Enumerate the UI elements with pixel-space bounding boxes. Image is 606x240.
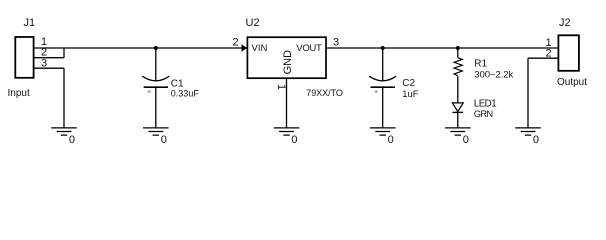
svg-text:Input: Input <box>8 88 30 99</box>
svg-text:0: 0 <box>463 134 469 146</box>
svg-text:0.33uF: 0.33uF <box>171 89 200 99</box>
svg-text:0: 0 <box>291 134 297 146</box>
svg-text:J2: J2 <box>559 17 571 29</box>
svg-text:1uF: 1uF <box>402 88 418 99</box>
svg-text:79XX/TO: 79XX/TO <box>306 88 343 98</box>
svg-text:0: 0 <box>69 134 75 146</box>
svg-text:300~2.2k: 300~2.2k <box>474 69 513 80</box>
svg-text:0: 0 <box>161 134 167 146</box>
svg-text:3: 3 <box>333 36 339 48</box>
svg-text:GRN: GRN <box>474 108 493 119</box>
svg-text:VOUT: VOUT <box>296 43 322 54</box>
svg-text:2: 2 <box>233 36 239 48</box>
svg-text:GND: GND <box>282 50 294 74</box>
svg-text:U2: U2 <box>246 17 260 29</box>
svg-text:1: 1 <box>275 84 287 90</box>
svg-text:0: 0 <box>388 134 394 146</box>
svg-text:2: 2 <box>546 47 552 59</box>
svg-text:Output: Output <box>557 77 587 88</box>
svg-text:0: 0 <box>533 134 539 146</box>
svg-text:R1: R1 <box>474 59 487 70</box>
svg-text:3: 3 <box>41 57 47 69</box>
svg-text:VIN: VIN <box>252 43 268 54</box>
svg-text:J1: J1 <box>24 17 36 29</box>
